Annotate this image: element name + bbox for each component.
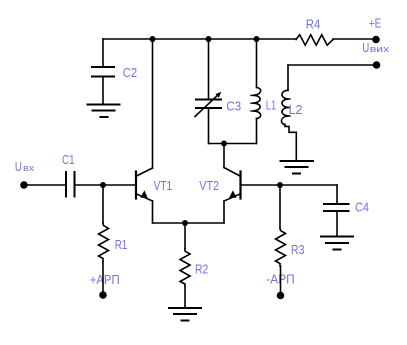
wire VT1 collector diagonal: [137, 168, 153, 176]
transistor VT2 emitter arrow: [229, 190, 236, 197]
wire L2 top corner: [287, 65, 289, 90]
node dot VT1 base / R1: [100, 182, 106, 188]
terminal dot Uvx input: [20, 181, 28, 189]
wire L1 lower: [256, 119, 258, 144]
node dot L1/top rail: [254, 36, 260, 42]
resistor R3: [279, 185, 281, 228]
svg-text:U: U: [362, 40, 369, 55]
svg-text:R3: R3: [291, 242, 305, 257]
wire C2 to ground: [102, 78, 104, 105]
wire VT1 emitter diagonal: [137, 194, 153, 201]
wire VT2 base lead: [241, 184, 280, 186]
wire VT2 emitter vertical: [223, 201, 225, 223]
svg-text:VT1: VT1: [154, 178, 173, 193]
svg-text:L1: L1: [266, 98, 276, 113]
svg-text:C2: C2: [123, 65, 137, 80]
inductor L1: [253, 88, 261, 119]
C3 arrowhead: [215, 92, 221, 98]
wire C1 to base node: [76, 184, 104, 186]
wire common emitter rail: [153, 222, 225, 224]
svg-text:VT2: VT2: [199, 178, 219, 193]
node dot emitter rail / R2: [182, 220, 188, 226]
node dot C3/top rail: [206, 36, 212, 42]
wire C4 to ground: [336, 212, 338, 236]
node dot C3-L1 rail / VT2 collector: [221, 141, 227, 147]
wire top rail right segment: [333, 38, 376, 40]
wire R2 to ground: [184, 287, 186, 308]
ground (L2): [281, 161, 314, 174]
svg-text:C1: C1: [62, 152, 75, 167]
svg-text:вих: вих: [370, 44, 390, 55]
svg-text:C4: C4: [355, 200, 369, 215]
wire C3 lower: [208, 109, 210, 144]
node dot VT2 base / R3: [277, 182, 283, 188]
node dot VT1 collector/top rail: [150, 36, 156, 42]
terminal dot Uvyh output: [373, 61, 381, 69]
capacitor C3 variable arrow: [195, 94, 219, 117]
ground (C4): [321, 237, 353, 250]
transistor VT2 base bar: [239, 172, 241, 199]
terminal dot +APP: [99, 291, 107, 299]
input terminal wire: [24, 184, 66, 186]
resistor R4: [296, 35, 333, 46]
wire R3 to -APP terminal: [280, 266, 282, 292]
svg-text:+АРП: +АРП: [90, 272, 120, 287]
wire VT2 emitter diagonal: [224, 194, 240, 201]
resistor R2: [184, 223, 186, 249]
transistor VT1 base bar: [135, 172, 137, 199]
svg-text:R4: R4: [306, 16, 321, 31]
wire top rail left segment: [103, 38, 296, 40]
wire VT1 emitter vertical: [152, 201, 154, 223]
capacitor C2: [92, 67, 114, 77]
capacitor C4: [324, 204, 349, 211]
inductor L2: [281, 90, 288, 124]
transistor VT1 emitter arrow: [140, 190, 147, 197]
capacitor C1: [66, 172, 75, 197]
wire C3-L1 bottom rail: [209, 143, 257, 145]
resistor R1: [102, 185, 104, 223]
svg-text:+E: +E: [369, 16, 382, 31]
svg-text:U: U: [15, 159, 22, 174]
capacitor C3 plates: [196, 100, 221, 109]
wire VT1 collector vertical: [152, 39, 154, 168]
terminal dot -APP: [277, 292, 285, 300]
wire VT2 collector vertical: [223, 144, 225, 168]
svg-text:L2: L2: [289, 102, 303, 117]
svg-text:вх: вх: [23, 163, 34, 174]
wire VT1 base lead: [103, 184, 135, 186]
svg-text:R1: R1: [115, 237, 128, 252]
wire R1 to +APP terminal: [102, 262, 104, 293]
wire VT2 base node to C4: [280, 184, 337, 186]
wire C3 branch upper: [208, 39, 210, 99]
svg-text:C3: C3: [226, 98, 241, 113]
ground (C2): [88, 105, 120, 118]
svg-text:R2: R2: [195, 262, 208, 277]
wire C2 branch upper: [102, 39, 104, 66]
wire output secondary: [288, 64, 377, 66]
wire VT2 collector diagonal: [224, 168, 240, 177]
wire C4 upper: [336, 185, 338, 204]
ground (R2): [169, 308, 201, 321]
wire L2 bottom jog: [285, 125, 296, 161]
terminal dot +E: [372, 36, 380, 44]
wire L1 branch upper: [256, 39, 258, 88]
